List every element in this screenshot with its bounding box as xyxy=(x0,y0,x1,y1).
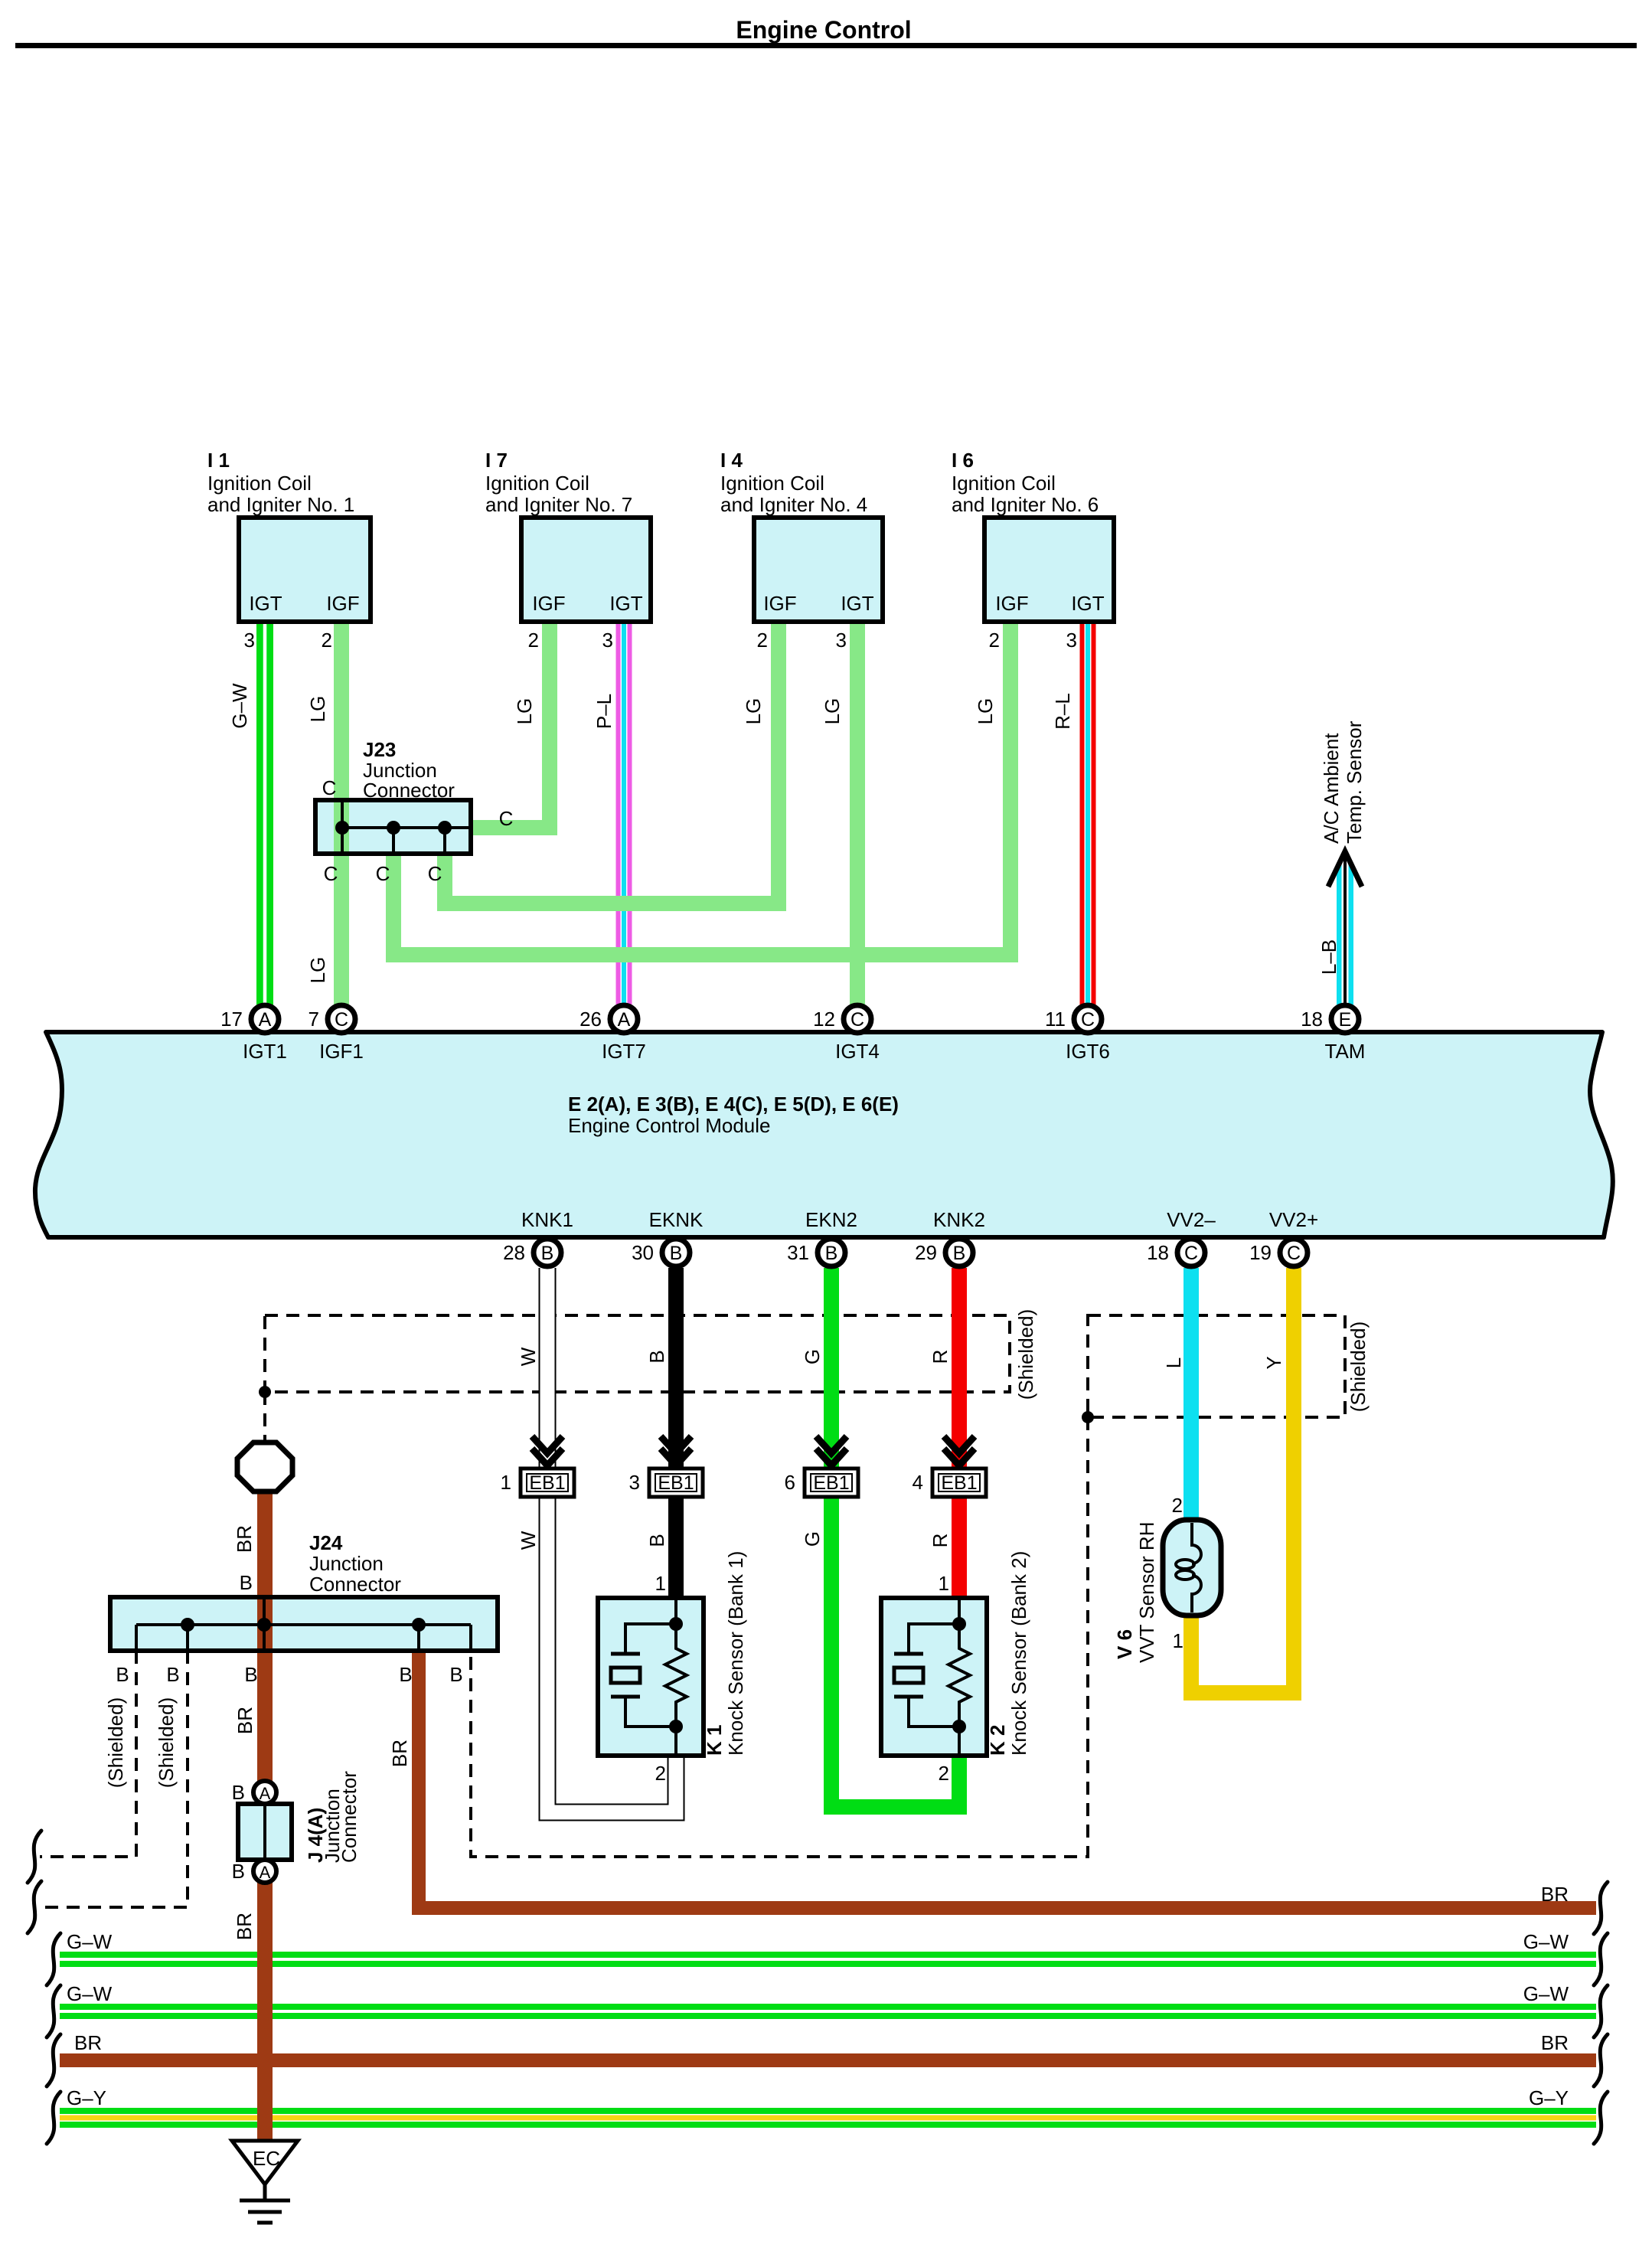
svg-text:C: C xyxy=(850,1009,864,1031)
wire LG from I4 IGT to ECM pin 12 xyxy=(850,617,865,1005)
svg-text:W: W xyxy=(517,1347,540,1366)
svg-text:L: L xyxy=(1162,1357,1185,1368)
svg-text:(Shielded): (Shielded) xyxy=(155,1697,178,1789)
ignition coil I6 box xyxy=(984,518,1114,622)
VVT shield drain wire to J24 xyxy=(471,1417,1088,1857)
ECM pin 31 B EKN2 xyxy=(818,1239,845,1266)
svg-text:and Igniter No. 4: and Igniter No. 4 xyxy=(720,493,867,516)
svg-text:IGF: IGF xyxy=(763,592,796,615)
svg-text:LG: LG xyxy=(742,698,765,725)
svg-text:Ignition Coil: Ignition Coil xyxy=(720,472,824,495)
svg-text:B: B xyxy=(825,1243,838,1264)
octagon and ground xyxy=(232,1442,298,2223)
knock sensor K2 box xyxy=(881,1598,987,1756)
svg-text:1: 1 xyxy=(655,1572,666,1595)
J24 junction dots xyxy=(181,1618,194,1632)
svg-text:Ignition Coil: Ignition Coil xyxy=(207,472,312,495)
svg-text:G–Y: G–Y xyxy=(67,2086,106,2109)
shield drain to octagon xyxy=(263,1392,266,1442)
svg-text:I 6: I 6 xyxy=(952,449,974,472)
svg-text:and Igniter No. 1: and Igniter No. 1 xyxy=(207,493,354,516)
svg-text:2: 2 xyxy=(757,629,768,652)
svg-text:BR: BR xyxy=(74,2031,102,2054)
ignition coil I1 box xyxy=(239,518,371,622)
svg-text:Engine Control Module: Engine Control Module xyxy=(568,1114,771,1137)
svg-text:Engine Control: Engine Control xyxy=(736,16,911,44)
wire R-L from I6 IGT to ECM pin 11 xyxy=(1080,617,1096,1005)
shield box around knock sensor wires xyxy=(265,1315,1010,1392)
svg-text:EB1: EB1 xyxy=(941,1472,977,1494)
svg-text:VV2+: VV2+ xyxy=(1269,1208,1318,1231)
J23 junction dots xyxy=(335,821,349,835)
svg-text:LG: LG xyxy=(821,698,844,725)
ECM pin 17 A IGT1 xyxy=(251,1005,279,1033)
wire break squiggles right xyxy=(1594,1882,1608,2144)
J24 shielded leg 1 xyxy=(40,1651,136,1857)
ECM pin 26 A IGT7 xyxy=(610,1005,638,1033)
wire G-Y bus xyxy=(60,2108,1596,2114)
svg-text:7: 7 xyxy=(309,1008,319,1031)
EB1 connectors xyxy=(501,1436,986,1497)
svg-text:31: 31 xyxy=(787,1241,809,1264)
svg-text:C: C xyxy=(376,862,390,885)
ignition coil I4 box xyxy=(754,518,883,622)
EB1 connector pin 4 on R wire xyxy=(913,1436,986,1497)
svg-text:Ignition Coil: Ignition Coil xyxy=(952,472,1056,495)
svg-text:BR: BR xyxy=(1541,1883,1569,1906)
wire BR bus xyxy=(60,2053,1596,2067)
svg-text:11: 11 xyxy=(1045,1008,1066,1031)
svg-text:TAM: TAM xyxy=(1325,1040,1366,1063)
svg-text:KNK1: KNK1 xyxy=(521,1208,573,1231)
svg-text:3: 3 xyxy=(629,1471,640,1494)
svg-text:Knock Sensor (Bank 1): Knock Sensor (Bank 1) xyxy=(724,1551,747,1756)
svg-text:C: C xyxy=(322,776,337,799)
svg-text:EKN2: EKN2 xyxy=(805,1208,857,1231)
shield octagon ground xyxy=(237,1442,292,1491)
svg-text:3: 3 xyxy=(836,629,847,652)
svg-text:and Igniter No. 6: and Igniter No. 6 xyxy=(952,493,1099,516)
ignition coil boxes xyxy=(207,449,1114,652)
svg-text:G–Y: G–Y xyxy=(1529,2086,1569,2109)
svg-text:IGT: IGT xyxy=(249,592,282,615)
wire W from ECM pin 28 KNK1 to K1 pin 2 xyxy=(547,1268,676,1812)
svg-text:2: 2 xyxy=(989,629,1000,652)
wire L from ECM pin 18 VV2- to VVT sensor pin 2 xyxy=(1183,1268,1199,1522)
svg-text:B: B xyxy=(240,1571,253,1594)
svg-text:IGT7: IGT7 xyxy=(602,1040,646,1063)
svg-text:IGF1: IGF1 xyxy=(319,1040,364,1063)
svg-text:IGT4: IGT4 xyxy=(835,1040,880,1063)
svg-text:C: C xyxy=(1287,1243,1301,1264)
shield junction dot K box xyxy=(259,1386,271,1398)
svg-text:E 2(A), E 3(B), E 4(C), E 5(D): E 2(A), E 3(B), E 4(C), E 5(D), E 6(E) xyxy=(568,1093,899,1116)
svg-text:G–W: G–W xyxy=(1523,1982,1569,2005)
svg-text:I 1: I 1 xyxy=(207,449,230,472)
ECM pin 18 E TAM xyxy=(1331,1005,1359,1033)
ECM pin 18 C VV2- xyxy=(1177,1239,1205,1266)
svg-text:1: 1 xyxy=(939,1572,949,1595)
svg-text:A: A xyxy=(260,1784,271,1803)
svg-text:EC: EC xyxy=(253,2147,280,2170)
svg-text:IGT: IGT xyxy=(841,592,873,615)
svg-text:C: C xyxy=(335,1009,348,1031)
svg-text:V 6: V 6 xyxy=(1113,1629,1136,1659)
svg-text:A: A xyxy=(259,1009,272,1031)
shield dashed lines xyxy=(40,1315,1345,1907)
wire LG from I4 IGF to J23 lower pin xyxy=(445,617,779,903)
svg-text:17: 17 xyxy=(220,1008,243,1031)
wire L-B from ECM pin 18 TAM to A/C ambient temp sensor arrow xyxy=(1337,864,1353,1005)
svg-text:A: A xyxy=(618,1009,631,1031)
svg-text:IGT: IGT xyxy=(1071,592,1104,615)
EB1 connector pin 3 on B wire xyxy=(629,1436,703,1497)
svg-text:1: 1 xyxy=(501,1471,511,1494)
svg-text:4: 4 xyxy=(913,1471,923,1494)
svg-text:K 2: K 2 xyxy=(986,1725,1009,1756)
title rule xyxy=(15,43,1637,48)
arrow head to A/C ambient temp sensor xyxy=(1328,851,1362,887)
svg-text:19: 19 xyxy=(1249,1241,1272,1264)
svg-text:EKNK: EKNK xyxy=(649,1208,704,1231)
J4A connector xyxy=(232,1771,361,1883)
svg-text:Connector: Connector xyxy=(338,1771,361,1863)
svg-text:Temp. Sensor: Temp. Sensor xyxy=(1343,720,1366,844)
svg-text:B: B xyxy=(449,1663,462,1686)
V6 inductor coil symbol xyxy=(1192,1523,1201,1612)
ECM pin 7 C IGF1 xyxy=(328,1005,355,1033)
EB1 connector pin 6 on G wire xyxy=(785,1436,858,1497)
wire B from ECM pin 30 EKNK to K1 pin 1 xyxy=(668,1268,684,1600)
svg-text:BR: BR xyxy=(233,1525,256,1553)
knock sensor K1 box xyxy=(598,1598,704,1756)
svg-text:G: G xyxy=(801,1531,824,1547)
svg-text:K 1: K 1 xyxy=(703,1725,726,1756)
svg-text:Connector: Connector xyxy=(363,779,455,802)
J4A pin A top xyxy=(253,1781,276,1804)
ECM pin 19 C VV2+ xyxy=(1280,1239,1308,1266)
svg-text:Y: Y xyxy=(1262,1356,1285,1369)
wire Y from ECM pin 19 VV2+ to VVT sensor pin 1 xyxy=(1191,1268,1294,1693)
svg-text:26: 26 xyxy=(580,1008,602,1031)
svg-text:(Shielded): (Shielded) xyxy=(1347,1322,1370,1413)
svg-text:BR: BR xyxy=(388,1740,411,1767)
svg-text:IGT6: IGT6 xyxy=(1066,1040,1110,1063)
wire LG from I1 IGF through J23 to ECM pin 7 xyxy=(334,617,349,1005)
svg-text:2: 2 xyxy=(322,629,332,652)
svg-text:and Igniter No. 7: and Igniter No. 7 xyxy=(485,493,632,516)
junction connectors J23 J24 xyxy=(110,800,498,1651)
svg-text:Connector: Connector xyxy=(309,1573,401,1596)
svg-text:C: C xyxy=(1081,1009,1095,1031)
svg-text:LG: LG xyxy=(513,698,536,725)
svg-text:1: 1 xyxy=(1173,1629,1183,1652)
svg-text:IGT1: IGT1 xyxy=(243,1040,287,1063)
svg-text:B: B xyxy=(399,1663,412,1686)
junction connector J24 xyxy=(110,1597,498,1651)
svg-text:6: 6 xyxy=(785,1471,795,1494)
wire LG from I7 IGF to J23 right pin xyxy=(471,617,550,828)
svg-text:B: B xyxy=(166,1663,179,1686)
svg-text:P–L: P–L xyxy=(593,694,615,729)
svg-text:R–L: R–L xyxy=(1051,693,1074,730)
svg-text:EB1: EB1 xyxy=(813,1472,849,1494)
wire BR from J24 leg 4 to right bus xyxy=(419,1651,1596,1908)
shield box around VVT sensor wires xyxy=(1088,1315,1345,1417)
svg-text:IGF: IGF xyxy=(326,592,359,615)
svg-text:B: B xyxy=(645,1350,668,1363)
svg-text:B: B xyxy=(116,1663,129,1686)
svg-text:R: R xyxy=(929,1534,952,1548)
vvt sensor xyxy=(1113,1494,1221,1663)
ECM E2-E6 Engine Control Module band xyxy=(35,1032,1613,1237)
VVT sensor V6 pill body xyxy=(1163,1520,1221,1616)
svg-text:18: 18 xyxy=(1147,1241,1169,1264)
svg-text:A/C Ambient: A/C Ambient xyxy=(1320,733,1343,844)
wire LG from I6 IGF to J23 lower pin xyxy=(393,617,1010,955)
wire G-W bus 1 xyxy=(60,1952,1596,1958)
svg-text:(Shielded): (Shielded) xyxy=(104,1697,127,1789)
junction connector J23 xyxy=(315,800,471,854)
svg-text:C: C xyxy=(1184,1243,1198,1264)
svg-text:W: W xyxy=(517,1531,540,1550)
svg-text:18: 18 xyxy=(1301,1008,1323,1031)
svg-text:E: E xyxy=(1339,1009,1352,1031)
svg-text:G–W: G–W xyxy=(1523,1930,1569,1953)
junction connector fills xyxy=(110,800,498,1651)
K1 internal piezo and resistor xyxy=(611,1600,687,1753)
ECM pin 12 C IGT4 xyxy=(844,1005,871,1033)
svg-text:2: 2 xyxy=(528,629,539,652)
svg-text:LG: LG xyxy=(306,957,329,984)
junction connector J4(A) box xyxy=(238,1804,292,1860)
svg-text:L–B: L–B xyxy=(1317,939,1340,975)
knock sensors xyxy=(598,1551,1030,1785)
ignition coil I7 box xyxy=(521,518,651,622)
svg-text:IGT: IGT xyxy=(609,592,642,615)
ECM pin 30 B EKNK xyxy=(662,1239,690,1266)
EC ground hatches xyxy=(263,2184,267,2200)
svg-text:B: B xyxy=(232,1781,245,1804)
ECM pin 29 B KNK2 xyxy=(945,1239,973,1266)
wire G from ECM pin 31 EKN2 to K2 pin 2 xyxy=(831,1268,959,1807)
svg-text:G–W: G–W xyxy=(67,1930,113,1953)
svg-text:B: B xyxy=(244,1663,257,1686)
svg-text:A: A xyxy=(260,1863,271,1882)
svg-text:2: 2 xyxy=(655,1762,666,1785)
svg-text:B: B xyxy=(670,1243,683,1264)
ECM pin 28 B KNK1 xyxy=(534,1239,561,1266)
svg-text:2: 2 xyxy=(939,1762,949,1785)
svg-text:EB1: EB1 xyxy=(529,1472,565,1494)
wire P-L from I7 IGT to ECM pin 26 xyxy=(616,617,632,1005)
wire BR from J4A to EC ground xyxy=(257,1881,273,2142)
J24 shielded leg 2 xyxy=(40,1651,188,1907)
svg-text:Ignition Coil: Ignition Coil xyxy=(485,472,589,495)
K2 internal piezo and resistor xyxy=(894,1600,970,1753)
wire G-W from I1 IGT to ECM pin 17 xyxy=(256,617,273,1005)
EB1 connector pin 1 on W wire xyxy=(501,1436,574,1497)
wire G-W bus 2 xyxy=(60,2004,1596,2010)
svg-text:LG: LG xyxy=(306,696,329,723)
svg-text:J23: J23 xyxy=(363,738,396,761)
EC ground triangle xyxy=(232,2141,298,2184)
svg-text:Junction: Junction xyxy=(309,1552,384,1575)
wire BR from octagon through J24 to J4A xyxy=(257,1490,273,1782)
svg-text:BR: BR xyxy=(233,1707,256,1734)
svg-text:G–W: G–W xyxy=(67,1982,113,2005)
wire R from ECM pin 29 KNK2 to K2 pin 1 xyxy=(952,1268,967,1600)
wire break squiggles left xyxy=(28,1831,60,2144)
svg-text:29: 29 xyxy=(915,1241,937,1264)
svg-text:Knock Sensor (Bank 2): Knock Sensor (Bank 2) xyxy=(1007,1551,1030,1756)
svg-text:C: C xyxy=(499,807,514,830)
J4A pin A bottom xyxy=(253,1860,276,1883)
svg-text:LG: LG xyxy=(974,698,997,725)
svg-text:I 4: I 4 xyxy=(720,449,743,472)
svg-text:12: 12 xyxy=(813,1008,835,1031)
svg-text:IGF: IGF xyxy=(532,592,565,615)
svg-text:B: B xyxy=(645,1534,668,1547)
svg-text:VV2–: VV2– xyxy=(1167,1208,1216,1231)
svg-text:R: R xyxy=(929,1350,952,1364)
svg-text:I 7: I 7 xyxy=(485,449,508,472)
svg-text:3: 3 xyxy=(1066,629,1077,652)
svg-text:28: 28 xyxy=(503,1241,525,1264)
svg-text:BR: BR xyxy=(233,1913,256,1940)
ecm pin circles xyxy=(220,1005,1359,1266)
ECM pin 11 C IGT6 xyxy=(1074,1005,1102,1033)
svg-text:B: B xyxy=(232,1860,245,1883)
svg-text:B: B xyxy=(953,1243,966,1264)
svg-text:3: 3 xyxy=(602,629,613,652)
svg-text:C: C xyxy=(428,862,442,885)
svg-text:B: B xyxy=(541,1243,554,1264)
bottom bus wires xyxy=(60,1955,1596,2125)
svg-text:IGF: IGF xyxy=(995,592,1028,615)
svg-text:(Shielded): (Shielded) xyxy=(1014,1309,1037,1400)
svg-text:2: 2 xyxy=(1172,1494,1183,1517)
svg-text:J24: J24 xyxy=(309,1531,343,1554)
svg-text:G–W: G–W xyxy=(228,683,251,729)
svg-text:G: G xyxy=(801,1349,824,1364)
svg-text:BR: BR xyxy=(1541,2031,1569,2054)
svg-text:30: 30 xyxy=(632,1241,654,1264)
svg-text:EB1: EB1 xyxy=(658,1472,694,1494)
shield junction dot VVT box xyxy=(1082,1411,1094,1423)
svg-text:KNK2: KNK2 xyxy=(933,1208,985,1231)
svg-text:VVT Sensor RH: VVT Sensor RH xyxy=(1135,1522,1158,1663)
svg-text:C: C xyxy=(324,862,338,885)
svg-text:3: 3 xyxy=(244,629,255,652)
